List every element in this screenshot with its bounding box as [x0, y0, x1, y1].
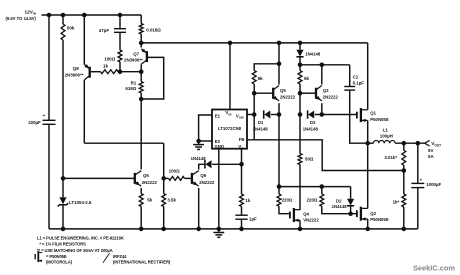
label Q2 P50N05E — [370, 217, 389, 222]
label Q6 2N2222 — [142, 180, 158, 185]
wire 220-1 to Q4 gate — [279, 206, 290, 213]
junction top rail / 50k — [61, 13, 66, 18]
wire 50k to LT1004 — [62, 40, 64, 197]
junction bottom rail / 1k* — [402, 227, 407, 232]
wire Q8 base to 1k — [91, 71, 101, 73]
svg-text:50Ω: 50Ω — [305, 157, 314, 162]
wire 220 row — [279, 186, 351, 188]
diode LT1004-2.5 — [58, 197, 68, 206]
resistor 1k (VC) — [240, 194, 244, 207]
svg-text:1N4148: 1N4148 — [332, 204, 348, 209]
junction 1k / Q7 collector — [139, 69, 144, 74]
wire 1k* bottom — [403, 207, 405, 229]
resistor 220ohm (Q4 gate) — [277, 194, 281, 206]
watermark SeekIC.com — [413, 263, 455, 272]
wire Q6 base — [63, 177, 135, 179]
svg-text:E1: E1 — [215, 113, 221, 118]
label 1000uF plus — [420, 178, 423, 183]
wire Q7 base loop — [141, 57, 164, 99]
svg-text:2N2222: 2N2222 — [199, 180, 215, 185]
label 5k (Q3) — [304, 76, 310, 81]
svg-text:Q9: Q9 — [200, 173, 206, 178]
ground (main rail) — [213, 229, 224, 237]
junction Q5 column / 5k branch — [277, 62, 282, 67]
transistor Q7 2N3906 — [141, 49, 147, 65]
label L1 100uH — [380, 133, 393, 138]
svg-text:47pF: 47pF — [99, 28, 110, 33]
wire switch node to L1 — [368, 142, 374, 144]
label D3 1N4148 — [303, 127, 319, 132]
label 1000uF — [426, 182, 441, 187]
svg-text:100Ω: 100Ω — [104, 56, 115, 61]
resistor 50k — [61, 24, 65, 40]
svg-text:FB: FB — [239, 137, 245, 142]
svg-text:2N3906**: 2N3906** — [65, 72, 84, 77]
wire E1 pin — [199, 115, 212, 141]
wire C1 top — [349, 65, 351, 87]
svg-text:1000µF: 1000µF — [426, 182, 441, 187]
svg-text:220µF: 220µF — [28, 120, 41, 125]
label 5A — [428, 154, 434, 159]
label LT1072CN8 — [218, 126, 242, 131]
resistor 5k (Q6) — [139, 194, 143, 207]
wire 3.01k bottom — [403, 165, 405, 170]
wire 220-2 top stub — [321, 187, 323, 194]
resistor 50ohm — [298, 154, 302, 165]
wire R1 top — [140, 72, 142, 82]
wire Q2 source down — [367, 219, 369, 229]
junction VC / D5 row — [239, 162, 244, 167]
wire top diode — [299, 43, 301, 50]
note mosfet types — [46, 254, 67, 259]
label 47pF — [99, 28, 110, 33]
wire 100ohm bottom — [119, 62, 121, 72]
wire R1 bottom — [140, 93, 142, 99]
label LT1004-2.5 — [69, 200, 92, 205]
resistor 3.01k* — [402, 150, 406, 165]
label Q3 — [323, 88, 329, 93]
junction bottom rail / Q2 source — [365, 227, 370, 232]
wire Q3 base — [300, 92, 316, 94]
svg-text:100µH: 100µH — [380, 133, 393, 138]
junction rail2 start / Q7 emitter — [139, 41, 144, 46]
wire bottom rail — [49, 228, 418, 230]
svg-text:P50N05E: P50N05E — [370, 217, 389, 222]
transistor Q8 2N3906 — [84, 64, 89, 80]
label Q7 2N3906** — [124, 57, 143, 62]
wire Q8 collector down to 3.5k node — [163, 143, 165, 178]
wire Q8 collector down — [83, 80, 85, 143]
label Q5 2N2222 — [280, 95, 296, 100]
note matching — [37, 248, 113, 253]
svg-text:50k: 50k — [67, 25, 75, 30]
resistor 5k (Q5) — [252, 71, 256, 85]
svg-text:5A: 5A — [428, 154, 434, 159]
label L1 — [383, 128, 389, 133]
label Q1 P50N05E — [370, 117, 389, 122]
junction bottom rail / Q9 — [196, 227, 201, 232]
label Q2 — [370, 211, 376, 216]
junction rail2 / Q5 column — [277, 41, 282, 46]
junction bottom rail / 5k3 — [139, 227, 144, 232]
svg-text:(9.5V TO 14.5V): (9.5V TO 14.5V) — [6, 16, 37, 21]
svg-text:619Ω: 619Ω — [125, 86, 136, 91]
wire D2 top — [350, 187, 352, 199]
wire 1k to junction — [118, 71, 141, 73]
note mosfet symbol — [35, 251, 42, 262]
junction VSW / 5k / D1 — [252, 112, 257, 117]
junction top rail / Q8 emitter — [82, 13, 87, 18]
pin VC label — [238, 144, 244, 150]
resistor 5k (Q3) — [298, 71, 302, 85]
wire Q8 collector across — [84, 142, 163, 144]
svg-text:D3: D3 — [310, 120, 316, 125]
wire Q9 collector to D5 — [199, 164, 205, 169]
junction bottom rail / 1uF — [239, 227, 244, 232]
wire C1 bottom to switch node — [350, 90, 368, 143]
wire top rail 12V — [42, 14, 142, 16]
svg-text:LT1004-2.5: LT1004-2.5 — [69, 200, 92, 205]
svg-text:Q1: Q1 — [370, 110, 376, 115]
junction switch node — [365, 141, 370, 146]
capacitor 47pF — [114, 29, 126, 33]
junction D1 / Q5 emitter — [277, 112, 282, 117]
wire 1000uF bottom — [417, 188, 419, 229]
svg-text:220Ω: 220Ω — [307, 198, 318, 203]
transistor Q9 2N2222 — [192, 171, 199, 186]
wire right subcircuit top row — [300, 64, 350, 66]
svg-text:220Ω: 220Ω — [282, 198, 293, 203]
junction 100ohm / 1k — [118, 69, 123, 74]
svg-text:(INTERNATIONAL RECTIFIER): (INTERNATIONAL RECTIFIER) — [113, 260, 171, 265]
svg-text:Q6: Q6 — [143, 173, 149, 178]
label D1 1N4148 — [253, 127, 269, 132]
label 220uF plus — [43, 113, 46, 118]
svg-text:2N2222: 2N2222 — [142, 180, 158, 185]
junction rail2 / diode column — [298, 41, 303, 46]
wire Q3 emitter down — [321, 103, 323, 114]
wire 100ohm left — [164, 177, 169, 179]
node V_OUT arrow — [425, 140, 430, 146]
label 3.01k* — [384, 155, 397, 160]
transistor Q4 VN2222 — [290, 208, 300, 222]
junction D3 row / Q3 emitter — [320, 112, 325, 117]
resistor 220ohm (Q2 gate) — [320, 194, 324, 206]
label 100ohm (Q9 base) — [169, 169, 180, 174]
junction 5k1 / Q5 base — [252, 91, 257, 96]
node 12V_IN input label — [25, 9, 37, 15]
label 1k (Q8 base) — [103, 63, 109, 68]
label Q4 VN2222 — [303, 218, 319, 223]
label 220uF — [28, 120, 41, 125]
diode D1 1N4148 — [264, 110, 271, 118]
capacitor 220uF — [43, 120, 56, 124]
svg-text:5V: 5V — [428, 148, 433, 153]
svg-text:P50N05E: P50N05E — [370, 117, 389, 122]
diode 1N4148 (top) — [296, 50, 303, 57]
wire 1k VC to 1uF — [241, 207, 243, 216]
label 50k — [67, 25, 75, 30]
diode D2 1N4148 — [347, 199, 354, 206]
junction top row / Q3 collector — [320, 63, 325, 68]
label 1uF — [249, 216, 257, 221]
wire Q1 source down — [367, 120, 369, 143]
ground (E1/E2) — [193, 141, 204, 149]
label D2 1N4148 — [332, 204, 348, 209]
wire 1k* top — [403, 171, 405, 195]
resistor R1 619ohm — [139, 82, 143, 94]
wire VSW node down to FB row — [253, 115, 255, 140]
label 3.5k — [167, 197, 176, 202]
capacitor 1000uF — [411, 183, 424, 187]
svg-text:1k*: 1k* — [393, 200, 400, 205]
pin VSW label — [236, 114, 244, 120]
resistor 0.018ohm — [139, 24, 143, 35]
junction bottom rail / GND pin — [217, 227, 222, 232]
wire 220-1 top stub — [278, 187, 280, 194]
wire 5k3 bottom — [140, 207, 142, 229]
label Q9 — [200, 173, 206, 178]
note IRFZ44 — [113, 254, 127, 259]
label 1N4148 (VC clamp) — [191, 156, 207, 161]
wire 47pF to 100ohm — [119, 32, 121, 50]
label R1 619ohm — [125, 86, 136, 91]
svg-text:0.1µF: 0.1µF — [353, 80, 365, 85]
wire R1 node down to Q6 collector — [140, 99, 142, 169]
svg-text:1k: 1k — [103, 63, 109, 68]
svg-text:0.018Ω: 0.018Ω — [146, 27, 161, 32]
transistor Q1 P50N05E — [357, 108, 368, 122]
wire top rail corner to 0.018 — [140, 15, 142, 24]
svg-text:1N4148: 1N4148 — [191, 156, 207, 161]
svg-text:Q8: Q8 — [73, 66, 79, 71]
wire 5k1 bottom — [253, 84, 255, 115]
label Q9 2N2222 — [199, 180, 215, 185]
wire Q5 emitter down — [278, 103, 280, 114]
label Q7 — [133, 52, 139, 57]
transistor Q2 P50N05E — [357, 207, 368, 221]
resistor 1k (Q8 base) — [101, 70, 119, 74]
note international rectifier — [113, 260, 171, 265]
label 100ohm vertical — [104, 56, 115, 61]
label Q8 2N3906** — [65, 72, 84, 77]
label C1 0.1uF — [353, 80, 365, 85]
note film resistors — [39, 242, 86, 247]
inductor L1 100uH — [373, 140, 395, 143]
svg-text:R1: R1 — [131, 81, 137, 86]
wire Q5 collector column — [278, 43, 280, 85]
wire D3 anode to Q1 gate — [315, 114, 357, 116]
wire 3.5k bottom — [163, 207, 165, 229]
svg-text:3.5k: 3.5k — [167, 197, 176, 202]
wire GND pin down — [218, 149, 220, 229]
svg-text:Q7: Q7 — [133, 52, 139, 57]
junction output / 1000uF — [416, 141, 421, 146]
svg-text:L1 = PULSE ENGINEERING, INC.: L1 = PULSE ENGINEERING, INC. # PE-92210K — [37, 235, 124, 240]
svg-text:D1: D1 — [258, 120, 264, 125]
wire D2 bottom — [350, 207, 352, 214]
wire Q3 collector up — [321, 65, 323, 85]
wire VIN pin — [229, 43, 231, 110]
svg-text:IRFZ44: IRFZ44 — [113, 254, 127, 259]
wire 5k2 column down to 50ohm — [299, 115, 301, 154]
label V_OUT — [431, 141, 441, 147]
diode D5 1N4148 (VC clamp) — [205, 160, 212, 168]
wire 220uF bottom — [48, 124, 50, 229]
svg-text:5k: 5k — [304, 76, 310, 81]
wire VSW pin to D1 — [247, 114, 254, 116]
wire D5 to VC column — [212, 163, 241, 165]
junction D2 / Q2 gate row — [348, 211, 353, 216]
junction diode / 5k2 node — [298, 63, 303, 68]
svg-text:5k: 5k — [147, 197, 152, 202]
junction bottom rail / Q4 source — [298, 227, 303, 232]
svg-text:1k: 1k — [245, 198, 250, 203]
resistor 100ohm (Q9 base) — [169, 176, 185, 180]
wire VC pin down — [241, 149, 243, 194]
wire 220-2 to Q2 gate row — [322, 206, 357, 213]
pin GND label — [215, 144, 225, 149]
label 1k (VC) — [245, 198, 250, 203]
label R1 — [131, 81, 137, 86]
junction 3.5k / 100ohm node — [161, 176, 166, 181]
svg-text:* = 1% FILM RESISTORS: * = 1% FILM RESISTORS — [39, 242, 86, 247]
svg-text:3.01k*: 3.01k* — [384, 155, 397, 160]
junction 220 row / 220-2 — [320, 184, 325, 189]
wire Q1 drain up — [367, 43, 369, 110]
wire 0.018 to Q7 emitter — [140, 34, 142, 48]
wire 3.01k top — [403, 143, 405, 150]
junction rail2 / Vin — [228, 41, 233, 46]
svg-text:D2: D2 — [336, 198, 342, 203]
label Q4 — [303, 212, 309, 217]
svg-text:1µF: 1µF — [249, 216, 257, 221]
junction bottom rail / 3.5k — [161, 227, 166, 232]
wire Q7 collector — [140, 64, 142, 71]
wire 1000uF top — [417, 143, 419, 183]
junction D3 row / 5k2 column — [298, 112, 303, 117]
label Q1 — [370, 110, 376, 115]
wire 5k1 top branch — [254, 64, 279, 71]
wire Q6 emitter to 5k — [140, 188, 142, 194]
svg-text:2N2222: 2N2222 — [323, 95, 339, 100]
wire 5k2 top stub — [299, 65, 301, 71]
svg-text:GND: GND — [215, 144, 225, 149]
resistor 100ohm (vertical) — [118, 50, 122, 62]
op-amp U1 LT1072CN8 box — [212, 110, 247, 149]
label Q6 — [143, 173, 149, 178]
label Q3 2N2222 — [323, 95, 339, 100]
svg-text:Q2: Q2 — [370, 211, 376, 216]
wire Q4 source down — [299, 220, 301, 229]
wire LT1004 bottom — [62, 205, 64, 229]
label 5k (Q6) — [147, 197, 152, 202]
junction 50k line / Q6 base row — [61, 176, 66, 181]
wire Q9 emitter down — [198, 188, 200, 229]
capacitor C1 0.1uF — [344, 87, 355, 91]
junction 5k2 / Q3 base — [298, 91, 303, 96]
svg-text:(MOTOROLA): (MOTOROLA) — [46, 260, 73, 265]
note L1 spec — [37, 235, 124, 240]
label C1 — [353, 74, 359, 79]
label 1N4148 (top) — [305, 51, 321, 56]
svg-text:Q5: Q5 — [280, 88, 286, 93]
pin VIN label — [225, 110, 231, 116]
wire 5k2 bottom — [299, 84, 301, 115]
label 0.018ohm — [146, 27, 161, 32]
svg-text:C1: C1 — [353, 74, 359, 79]
wire 50k top — [62, 15, 64, 24]
pin E1 label — [215, 113, 221, 118]
wire Q8 emitter from rail — [83, 15, 85, 65]
label D1 — [258, 120, 264, 125]
wire Q5 node down to 220 row — [278, 115, 280, 187]
transistor Q5 2N2222 — [273, 86, 279, 101]
resistor 3.5k — [162, 194, 166, 207]
note slash — [103, 253, 110, 263]
label Q5 — [280, 88, 286, 93]
svg-text:SeekIC.com: SeekIC.com — [413, 263, 455, 272]
wire 100ohm to Q9 base — [185, 177, 192, 179]
svg-text:1N4148: 1N4148 — [303, 127, 319, 132]
svg-text:VN2222: VN2222 — [303, 218, 319, 223]
label 5k (Q5) — [258, 76, 264, 81]
label D2 — [336, 198, 342, 203]
svg-text:Q3: Q3 — [323, 88, 329, 93]
svg-text:100Ω: 100Ω — [169, 169, 180, 174]
wire rail2 — [141, 42, 368, 44]
note motorola — [46, 260, 73, 265]
wire L1 to output — [395, 142, 424, 144]
wire switch node down to Q2 drain — [367, 143, 369, 208]
capacitor 1uF — [235, 215, 247, 219]
junction E1/E2 — [196, 139, 201, 144]
svg-text:= P50N05E: = P50N05E — [46, 254, 67, 259]
junction bottom rail / LT1004 — [61, 227, 66, 232]
svg-text:L1: L1 — [383, 128, 389, 133]
wire 1uF bottom — [241, 219, 243, 229]
label 220ohm 2 — [307, 198, 318, 203]
wire 50ohm down to Q4 drain — [299, 165, 301, 211]
resistor 1k* — [402, 194, 406, 207]
svg-text:Q4: Q4 — [303, 212, 309, 217]
pin E2 label — [215, 139, 221, 144]
junction top rail / 220uF — [47, 13, 52, 18]
svg-text:1N4148: 1N4148 — [305, 51, 321, 56]
svg-text:1N4148: 1N4148 — [253, 127, 269, 132]
label 1k* — [393, 200, 400, 205]
wire E2 pin — [199, 140, 212, 142]
svg-text:+: + — [43, 113, 46, 118]
junction top rail / 47pF — [118, 13, 123, 18]
label 220ohm 1 — [282, 198, 293, 203]
junction 220 row / Q5 column — [277, 184, 282, 189]
junction FB / divider — [402, 168, 407, 173]
transistor Q3 2N2222 — [316, 86, 322, 101]
svg-text:2N2222: 2N2222 — [280, 95, 296, 100]
wire D1 anode to Q5 emitter — [271, 114, 279, 116]
junction output / divider — [402, 141, 407, 146]
svg-text:5k: 5k — [258, 76, 264, 81]
pin FB label — [239, 137, 245, 142]
label D3 — [310, 120, 316, 125]
node input voltage range label — [6, 16, 37, 21]
diode D3 1N4148 — [308, 110, 315, 118]
wire top diode to node — [299, 58, 301, 65]
wire 47pF top — [119, 15, 121, 29]
wire FB row — [247, 140, 404, 171]
svg-text:** = USE MATCHING OF 20mV AT 2: ** = USE MATCHING OF 20mV AT 200µA — [37, 248, 113, 253]
